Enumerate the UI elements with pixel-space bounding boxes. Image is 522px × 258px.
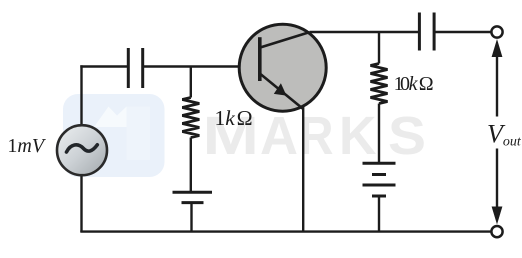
terminal top	[491, 26, 502, 37]
svg-text:1k Ω: 1k Ω	[215, 106, 253, 130]
battery B1	[173, 192, 213, 232]
transistor Q1	[239, 24, 326, 111]
wire capacitor to output terminal	[434, 31, 491, 33]
watermark logo	[63, 94, 165, 177]
wire capacitor to base	[143, 65, 259, 67]
terminal bottom	[491, 226, 502, 237]
watermark text MARKS	[203, 107, 427, 166]
battery B2	[363, 163, 396, 232]
AC source V1	[57, 125, 107, 175]
wire top-left horizontal	[80, 65, 128, 67]
Vout arrow lower	[492, 149, 503, 225]
capacitor C2	[419, 13, 434, 51]
resistor R1 1k	[182, 67, 199, 194]
Vout arrow upper	[492, 39, 503, 117]
svg-text:Vout: Vout	[487, 120, 522, 150]
capacitor C1	[128, 48, 142, 88]
wire collector horizontal	[310, 31, 419, 33]
wire left vertical top	[80, 65, 82, 125]
resistor R2 10k	[371, 32, 388, 164]
svg-text:1mV: 1mV	[7, 135, 46, 157]
svg-text:10kΩ: 10kΩ	[394, 73, 434, 95]
wire left vertical bottom	[80, 175, 82, 232]
wire emitter vertical	[302, 107, 304, 232]
wire bottom rail	[80, 230, 490, 232]
